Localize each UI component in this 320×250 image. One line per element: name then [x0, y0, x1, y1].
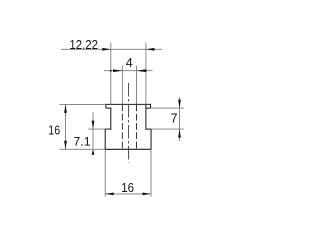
- wire right base edge: [150, 129, 152, 149]
- svg-text:4: 4: [126, 56, 133, 70]
- ext line 7.1 top: [89, 128, 106, 130]
- dimension 12.22: [61, 37, 162, 52]
- extension lines: [60, 43, 184, 197]
- dimension 4: [104, 56, 153, 72]
- wire left neck edge: [110, 108, 112, 129]
- ext line 4 left: [121, 66, 123, 105]
- part outline: [105, 104, 151, 149]
- dimension 7 right: [170, 97, 180, 141]
- junction dot right: [145, 70, 147, 72]
- ext line top-left horizontal: [60, 103, 106, 105]
- ext line bottom 16 left: [104, 149, 106, 196]
- wire right shoulder: [146, 128, 151, 130]
- ext line 12.22 right: [145, 43, 147, 105]
- svg-text:16: 16: [48, 123, 60, 138]
- ext line 4 right: [136, 66, 138, 105]
- junction dot left: [110, 70, 112, 72]
- svg-text:7: 7: [170, 111, 177, 125]
- wire top edge: [106, 103, 151, 105]
- dimension 16 bottom: [105, 180, 151, 195]
- dimension 16 left: [48, 104, 67, 149]
- wire bottom edge: [105, 148, 151, 150]
- dimension 7.1: [73, 113, 94, 155]
- wire left lip step: [106, 104, 111, 108]
- svg-text:7.1: 7.1: [73, 135, 90, 149]
- ext line bottom-left horizontal: [60, 148, 106, 150]
- ext line bottom 16 right: [150, 149, 152, 196]
- center line: [128, 83, 130, 163]
- wire left shoulder: [105, 128, 111, 130]
- wire right lip step: [146, 104, 151, 108]
- svg-text:12.22: 12.22: [69, 37, 98, 52]
- svg-text:16: 16: [121, 180, 134, 195]
- wire left base edge: [104, 129, 106, 149]
- ext line 12.22 left: [110, 43, 112, 105]
- wire right neck edge: [145, 104, 147, 129]
- hidden hole line right: [136, 104, 138, 149]
- ext line 7 bottom right: [151, 128, 184, 130]
- ext line 7 top right: [151, 107, 184, 109]
- hidden hole line left: [121, 104, 123, 149]
